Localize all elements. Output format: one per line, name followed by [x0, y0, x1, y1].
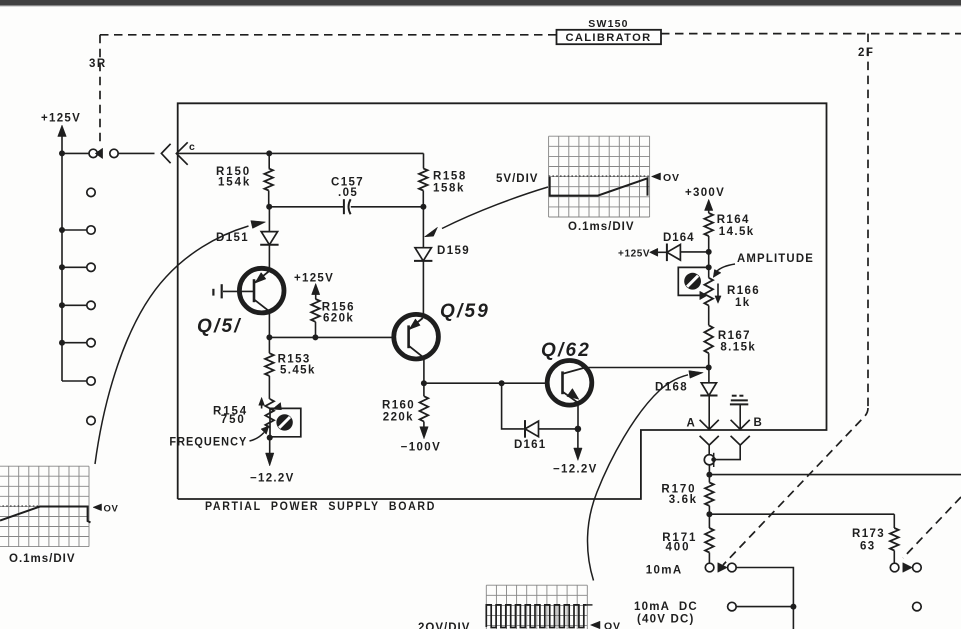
svg-text:+300V: +300V	[685, 187, 725, 199]
svg-text:−12.2V: −12.2V	[250, 473, 295, 485]
terminal stub5	[87, 377, 95, 385]
svg-text:R173: R173	[852, 528, 885, 540]
junction R156 bottom	[312, 334, 318, 340]
waveform thumbnail top graticule	[549, 136, 650, 217]
dashed line 2F vertical	[867, 34, 869, 408]
svg-text:R167: R167	[718, 330, 751, 342]
power supply board outline	[178, 103, 827, 499]
R154 adjust arrow	[261, 401, 263, 409]
capacitor C157 left plate	[343, 199, 345, 214]
wire R170 top lead	[708, 475, 710, 483]
Q159 emitter lead inner	[409, 318, 422, 329]
svg-text:CALIBRATOR: CALIBRATOR	[566, 32, 652, 44]
wire DC row	[736, 606, 793, 608]
pointer curve bottom thumbnail to D168	[588, 375, 688, 581]
contact arrow R173	[903, 563, 913, 573]
diode D164	[667, 245, 681, 261]
Q159 collector lead inner	[409, 346, 422, 357]
waveform thumbnail bottom top-level stub	[586, 604, 593, 606]
wire stub3	[62, 304, 87, 306]
junction D164	[706, 249, 712, 255]
contact circle 10mA left	[705, 563, 714, 572]
svg-text:R166: R166	[727, 285, 760, 297]
pointer curve left thumbnail to D151	[95, 226, 249, 464]
wire stub1	[62, 229, 87, 231]
junction rail row1	[59, 150, 65, 156]
chevron large at board edge	[176, 142, 187, 165]
R154 knob	[276, 414, 292, 430]
junction DC row	[790, 604, 796, 610]
arrow 0V left thumbnail	[93, 504, 102, 511]
svg-text:400: 400	[666, 541, 691, 553]
svg-text:R164: R164	[717, 214, 750, 226]
dashed bus left to SW150	[100, 34, 556, 36]
wire R171 bottom lead	[708, 553, 710, 564]
Q162 emitter arrow	[567, 389, 579, 400]
terminal 1	[89, 149, 97, 157]
resistor R158	[419, 168, 428, 190]
R166 knob	[684, 273, 701, 290]
svg-text:A: A	[687, 417, 696, 429]
resistor R150	[264, 168, 273, 190]
arrow 0V bottom thumbnail	[591, 621, 601, 629]
wire rail to terminal row1	[62, 152, 89, 154]
wire stub2	[62, 266, 87, 268]
Q151 emitter lead inner	[255, 272, 269, 283]
junction rail stub2	[59, 264, 65, 270]
junction R170 top	[706, 472, 712, 478]
waveform thumbnail top 0V dotted line	[549, 175, 649, 177]
svg-text:FREQUENCY: FREQUENCY	[169, 437, 247, 449]
wire R160 top	[423, 383, 425, 396]
diode D161	[525, 421, 539, 437]
svg-text:154k: 154k	[218, 177, 251, 189]
svg-text:O.1ms/DIV: O.1ms/DIV	[568, 221, 635, 233]
svg-text:620k: 620k	[323, 312, 354, 324]
wire R166 top lead	[708, 267, 710, 277]
wire R173 top lead	[893, 514, 895, 528]
wire R173 bottom lead	[893, 551, 895, 564]
waveform thumbnail bottom square wave trace	[486, 605, 586, 628]
-100V arrow	[420, 427, 428, 439]
junction rail stub3	[59, 302, 65, 308]
wire R153-R154	[268, 376, 270, 399]
dashed diagonal right to R173 contact	[903, 497, 961, 558]
svg-text:+125V: +125V	[294, 273, 334, 285]
svg-text:158k: 158k	[433, 183, 465, 195]
junction R170 bottom	[706, 511, 712, 517]
wire output row lower	[709, 513, 894, 515]
wire D168 to A connector	[708, 396, 710, 430]
Q159 base bar	[407, 325, 410, 348]
capacitor C157 right plate	[349, 199, 351, 214]
pointer curve top thumbnail to D159	[442, 187, 548, 229]
top window bar	[0, 0, 961, 6]
wire terminal to chevron	[118, 152, 154, 154]
wire +125V rail vertical	[61, 153, 63, 381]
svg-text:8.15k: 8.15k	[720, 341, 756, 353]
junction Q159-R160	[421, 380, 427, 386]
resistor R160	[420, 396, 429, 421]
rotor contact tick	[713, 453, 715, 467]
ground above B	[732, 395, 737, 397]
contact arrow 10mA	[718, 563, 728, 573]
terminal floating lower	[87, 416, 95, 424]
svg-text:B: B	[754, 417, 763, 429]
wire Q162 collector row	[585, 367, 709, 369]
FREQUENCY pointer arrow	[250, 433, 265, 442]
resistor R166 potentiometer	[704, 278, 713, 306]
junction rail stub4	[59, 340, 65, 346]
wire D164 row	[681, 251, 709, 253]
contact circle DC right	[913, 602, 922, 611]
svg-text:D161: D161	[514, 439, 546, 451]
R166 adjust box	[678, 267, 708, 295]
svg-text:5V/DIV: 5V/DIV	[496, 173, 538, 185]
junction branch1 top	[266, 150, 272, 156]
resistor R156	[311, 299, 320, 322]
svg-text:D159: D159	[437, 245, 470, 257]
connector A mate chevron	[700, 436, 719, 445]
wire R160 to arrow	[423, 422, 425, 428]
svg-text:c: c	[189, 141, 195, 153]
resistor R153	[265, 353, 274, 376]
dashed bus SW150 to right edge	[661, 33, 961, 35]
svg-text:D151: D151	[216, 232, 249, 244]
junction R167-D168	[706, 365, 712, 371]
wire D159 to Q159	[422, 261, 424, 316]
waveform thumbnail left graticule	[0, 466, 89, 546]
svg-text:O.1ms/DIV: O.1ms/DIV	[9, 553, 76, 565]
wire D161 branch down	[502, 383, 524, 429]
svg-text:OV: OV	[604, 621, 621, 629]
ground at Q151 base short bar	[212, 289, 214, 296]
svg-text:PARTIAL POWER SUPPLY BOARD: PARTIAL POWER SUPPLY BOARD	[205, 501, 436, 513]
svg-text:SW150: SW150	[588, 18, 628, 30]
wire Q162 emitter down	[577, 403, 579, 429]
Q151 base lead	[223, 290, 254, 292]
svg-text:750: 750	[221, 414, 246, 426]
wire R153 top lead	[268, 337, 270, 353]
svg-text:10mA DC: 10mA DC	[634, 601, 698, 613]
ground at Q151 base tall bar	[221, 284, 223, 298]
svg-text:AMPLITUDE: AMPLITUDE	[737, 253, 814, 265]
wire rotor to R170 junction	[708, 465, 710, 475]
resistor R171	[705, 528, 714, 553]
terminal floating upper	[87, 188, 95, 196]
junction R158-C157	[420, 204, 426, 210]
waveform thumbnail top trace	[550, 177, 648, 196]
svg-text:3R: 3R	[89, 58, 107, 70]
transistor Q159	[394, 314, 439, 359]
dashed line 3R vertical	[99, 35, 101, 145]
wire R171 top lead	[708, 514, 710, 528]
wire Q151 collector down	[268, 311, 270, 337]
transistor Q151	[239, 268, 284, 313]
R154 wiper arrow	[272, 403, 281, 410]
arrow 0V top thumbnail	[652, 173, 661, 180]
chevron small	[161, 144, 170, 163]
Q151 base bar	[253, 279, 256, 302]
switch box SW150 CALIBRATOR	[557, 30, 662, 44]
+125V arrow at R156	[312, 283, 320, 294]
svg-text:14.5k: 14.5k	[719, 226, 755, 238]
-12.2V arrow left	[266, 453, 274, 466]
wire 10mA to down	[736, 568, 793, 629]
Q151 emitter arrow	[255, 273, 266, 284]
svg-text:63: 63	[860, 541, 876, 553]
AMPLITUDE pointer arrow	[717, 264, 736, 272]
wire D164 to R166 junction	[708, 252, 710, 268]
Q162 emitter lead inner	[563, 392, 577, 402]
wire D151 to Q151 emitter	[268, 245, 270, 270]
resistor R167	[704, 325, 713, 353]
junction D161 branch	[499, 380, 505, 386]
wire base row to Q159	[269, 336, 394, 338]
rotor contact circle	[704, 455, 714, 465]
svg-text:1k: 1k	[735, 297, 751, 309]
+300V arrow	[705, 199, 713, 210]
junction R166 box	[706, 264, 712, 270]
wire R156 bottom	[315, 322, 317, 338]
wire Q162 emitter down arrow	[577, 429, 579, 448]
terminal 2	[110, 149, 118, 157]
contact circle R173 left	[890, 563, 899, 572]
wire R166 to R167	[708, 306, 710, 326]
+125V arrow at D164	[650, 248, 658, 256]
svg-text:D164: D164	[663, 232, 695, 244]
svg-text:(40V DC): (40V DC)	[637, 614, 695, 626]
wire A mate stem	[708, 445, 710, 455]
wire R158 bottom lead	[422, 191, 424, 207]
wire B mate stem and link	[714, 445, 740, 460]
resistor R173	[890, 528, 899, 551]
terminal stub3	[87, 301, 95, 309]
wire Q159 collector down	[423, 357, 425, 383]
wire input c to branches	[176, 152, 423, 154]
connector B mate chevron	[731, 436, 750, 445]
wire Q159 to Q162 base	[424, 382, 548, 384]
resistor R154 potentiometer	[265, 399, 274, 427]
R166 wiper arrow	[700, 291, 708, 300]
wire stub4	[62, 342, 87, 344]
svg-text:−100V: −100V	[401, 442, 442, 454]
rotor contact dot	[711, 457, 716, 462]
wire R167 to junction	[708, 353, 710, 367]
waveform thumbnail left 0V dotted line	[0, 505, 89, 507]
svg-text:R158: R158	[433, 171, 467, 183]
Q159 emitter arrow	[409, 319, 420, 330]
wire R164 to D164 junction	[708, 236, 710, 252]
contact circle 10mA right	[728, 563, 737, 572]
svg-text:+125V: +125V	[41, 113, 81, 125]
contact circle DC left	[728, 602, 737, 611]
junction Q151-R153	[266, 334, 272, 340]
arrow into terminal 1	[95, 148, 102, 158]
wire D159 top lead	[422, 207, 424, 248]
junction R154 bottom	[267, 435, 273, 441]
svg-text:220k: 220k	[383, 412, 414, 424]
waveform thumbnail left trace	[0, 507, 91, 523]
wire branch2 top lead	[423, 153, 425, 168]
wire C157 right	[351, 206, 424, 208]
svg-text:.05: .05	[338, 187, 358, 199]
wire D161 to Q162 emitter	[539, 428, 578, 430]
dashed diagonal 2F to 10mA contact	[723, 408, 868, 565]
connector A arrow	[700, 420, 719, 430]
svg-text:Q/59: Q/59	[440, 301, 490, 322]
wire R150 top lead	[268, 153, 270, 168]
Q162 collector lead inner	[563, 368, 585, 374]
svg-text:5.45k: 5.45k	[280, 364, 316, 376]
svg-text:Q/5/: Q/5/	[197, 316, 242, 337]
resistor R164	[704, 213, 713, 236]
svg-text:OV: OV	[663, 172, 680, 184]
resistor R170	[705, 483, 714, 506]
Q162 base bar	[561, 371, 564, 394]
svg-text:−12.2V: −12.2V	[553, 464, 598, 476]
terminal stub1	[87, 226, 95, 234]
waveform thumbnail bottom graticule	[486, 585, 587, 629]
wire ground to B connector	[739, 405, 741, 429]
wire D168 top lead	[708, 368, 710, 383]
wire R150 bottom lead	[268, 191, 270, 207]
R154 adjust box	[270, 408, 301, 436]
wire D151 top lead	[268, 207, 270, 232]
Q151 collector lead inner	[255, 300, 269, 311]
+125V rail arrow	[58, 125, 67, 137]
diode D151	[261, 232, 277, 245]
junction R150-C157	[266, 204, 272, 210]
svg-text:Q/62: Q/62	[541, 340, 591, 361]
svg-text:D168: D168	[655, 382, 688, 394]
wire R170 bottom	[708, 506, 710, 514]
junction rail stub1	[59, 227, 65, 233]
transistor Q162	[547, 361, 592, 406]
svg-text:R160: R160	[382, 399, 415, 411]
diode D159	[415, 248, 431, 261]
R166 adjust arrow	[717, 284, 719, 297]
svg-text:10mA: 10mA	[646, 564, 683, 576]
terminal stub4	[87, 339, 95, 347]
terminal stub2	[87, 263, 95, 271]
svg-text:2F: 2F	[858, 47, 874, 59]
svg-text:3.6k: 3.6k	[669, 494, 698, 506]
svg-text:OV: OV	[104, 504, 119, 515]
diode D168	[701, 383, 716, 396]
svg-text:2OV/DIV: 2OV/DIV	[418, 622, 470, 629]
wire output row upper	[709, 474, 961, 476]
junction Q162 emitter	[575, 426, 582, 433]
wire rail bottom corner	[62, 380, 87, 382]
contact circle R173 right	[913, 563, 922, 572]
-12.2V arrow right	[574, 448, 582, 461]
connector B arrow	[731, 420, 750, 430]
wire D164 to +125V arrow	[658, 251, 667, 253]
svg-text:+125V: +125V	[618, 249, 650, 260]
wire C157 left	[269, 206, 344, 208]
wire R154 to -12.2V arrow	[269, 438, 271, 453]
